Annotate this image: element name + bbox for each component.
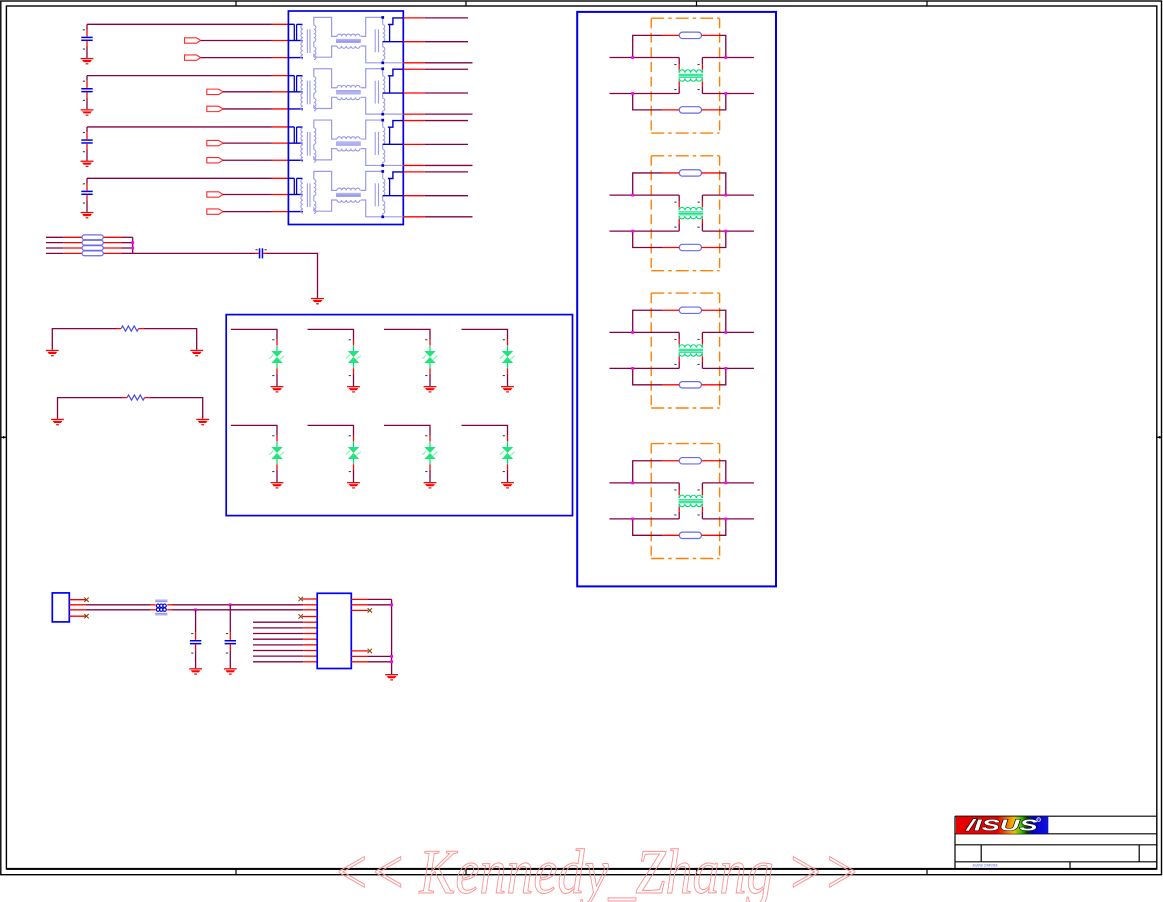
wire U1 mid left xyxy=(610,58,680,70)
wire R1 left xyxy=(52,329,121,350)
resistor R1A (top pill) xyxy=(679,32,701,38)
wire TVS D6 to ground xyxy=(353,464,355,482)
choke L4 xyxy=(674,489,703,515)
no-connect X J2 pin4 xyxy=(84,614,88,618)
wire T1 channel 1 outputs xyxy=(403,18,472,63)
wire TVS D5 to ground xyxy=(276,464,278,482)
shield group U4 dashed outline xyxy=(651,444,719,559)
port J4A xyxy=(207,192,223,197)
wire TVS D2 to ground xyxy=(353,368,355,386)
port J2A xyxy=(207,89,223,94)
ground xyxy=(224,668,237,675)
TVS diode D8 xyxy=(500,435,515,472)
wire port J3B to T1 xyxy=(223,159,288,161)
wire port J4B to T1 xyxy=(223,211,288,213)
TVS diode D1 xyxy=(269,339,284,376)
wire loop U3 bottom right xyxy=(702,368,726,384)
capacitor C3 xyxy=(81,127,92,161)
title block small text xyxy=(973,862,998,867)
choke L1 xyxy=(674,64,703,90)
U2 right NC pins xyxy=(351,610,368,651)
ground xyxy=(271,386,284,393)
wire R2 left xyxy=(58,398,128,419)
border zone ticks top xyxy=(236,1,927,6)
wire port J4A to T1 xyxy=(223,193,288,195)
no-connect X U2 pin1 xyxy=(299,597,303,601)
TVS diode array box xyxy=(226,315,572,516)
wire U1 mid right xyxy=(702,58,754,70)
port J3A xyxy=(207,140,223,145)
TVS diode D4 xyxy=(500,339,515,376)
wire loop U3 top left xyxy=(633,310,680,332)
TVS diode D7 xyxy=(422,435,437,472)
TVS diode D2 xyxy=(346,339,361,376)
resistor R1B (bottom pill) xyxy=(679,107,701,113)
ASUS logo xyxy=(956,817,1048,835)
capacitor C4 xyxy=(81,178,92,212)
TVS diode D5 xyxy=(269,435,284,472)
wire U2 mid left xyxy=(610,195,680,207)
wire U3 low left xyxy=(610,356,680,368)
transformer T1 channel 1 windings xyxy=(288,16,403,64)
port J3B xyxy=(207,158,223,163)
wire TVS D8 to ground xyxy=(507,464,509,482)
choke L2 xyxy=(674,202,703,228)
node junction C11 tap xyxy=(229,603,232,606)
wire loop U4 top left xyxy=(633,461,680,483)
wire to TVS D5 xyxy=(231,425,277,441)
wire to TVS D1 xyxy=(231,329,277,345)
no-connect X J2 pin1 xyxy=(84,598,88,602)
ground xyxy=(46,350,59,357)
ground xyxy=(424,386,437,393)
svg-text:R: R xyxy=(1037,818,1040,822)
wire loop U4 bottom right xyxy=(702,519,726,535)
wire loop U2 bottom left xyxy=(633,231,680,247)
wire port J1A to T1 xyxy=(201,40,289,42)
transformer T1 channel 3 windings xyxy=(288,119,403,167)
port J1A xyxy=(185,38,201,43)
ground xyxy=(190,350,203,357)
ground xyxy=(501,482,514,489)
ground xyxy=(81,109,94,115)
title block grid xyxy=(955,816,1157,869)
wire cap C1 to transformer T1 xyxy=(87,23,288,25)
ground xyxy=(271,482,284,489)
choke L3 xyxy=(674,339,703,365)
resistor pack RN1 wires left xyxy=(46,237,133,253)
transformer T1 channel 4 windings xyxy=(288,170,403,218)
svg-text:ASUSTeK COMPUTER: ASUSTeK COMPUTER xyxy=(973,862,998,867)
node junctions U1 xyxy=(631,56,727,95)
resistor R3B (bottom pill) xyxy=(679,382,701,388)
no-connect X U2 right b xyxy=(368,649,372,653)
wire U1 low right xyxy=(702,81,754,93)
wire U4 low left xyxy=(610,507,680,519)
wire U4 mid left xyxy=(610,483,680,495)
wire port J2A to T1 xyxy=(223,91,288,93)
ground xyxy=(385,674,398,681)
shield group U1 dashed outline xyxy=(651,18,719,133)
U2 left NC pins xyxy=(302,599,317,617)
wire loop U3 top right xyxy=(702,310,726,332)
capacitor C9 (horizontal) xyxy=(256,248,268,258)
ground xyxy=(196,419,209,426)
wire TVS D7 to ground xyxy=(429,464,431,482)
ground xyxy=(51,419,64,426)
resistor pack RN1 body xyxy=(82,235,103,256)
wire T1 channel 4 outputs xyxy=(403,172,472,217)
ground xyxy=(81,58,94,65)
wire J2 to FB1 xyxy=(86,605,156,610)
wire U2 mid right xyxy=(702,195,754,207)
LAN connector module box xyxy=(577,12,776,587)
wire to TVS D8 xyxy=(462,425,508,441)
wire U3 low right xyxy=(702,356,754,368)
wire loop U4 bottom left xyxy=(633,519,680,535)
wire port J1B to T1 xyxy=(201,57,289,59)
transformer module T1 box xyxy=(288,11,403,225)
TVS diode D3 xyxy=(422,339,437,376)
resistor R2 xyxy=(127,395,144,400)
node junctions U3 xyxy=(631,331,727,370)
TVS diode D6 xyxy=(346,435,361,472)
wire loop U1 top left xyxy=(633,35,680,57)
wire loop U1 top right xyxy=(702,35,726,57)
wire cap C2 to transformer T1 xyxy=(87,75,288,77)
capacitor C1 xyxy=(81,24,92,58)
node junctions U2 right xyxy=(390,603,393,663)
wire U2 low right xyxy=(702,219,754,231)
node junctions U2 xyxy=(631,194,727,233)
wire U1 low left xyxy=(610,81,680,93)
wire bundle to U2 xyxy=(253,622,317,662)
wire R2 right xyxy=(145,398,203,419)
port J4B xyxy=(207,209,223,214)
border zone ticks bottom xyxy=(236,869,927,875)
wire C9 to ground xyxy=(268,253,318,298)
border zone tick left xyxy=(1,436,7,439)
wire U3 mid left xyxy=(610,332,680,344)
wire R1 right xyxy=(139,329,197,350)
node junction C10 tap xyxy=(194,608,197,611)
watermark Kennedy_Zhang xyxy=(333,837,860,902)
wire cap C4 to transformer T1 xyxy=(87,177,288,179)
port J1B xyxy=(185,55,201,60)
resistor R3A (top pill) xyxy=(679,307,701,313)
connector J2 xyxy=(52,593,69,622)
IC U2 xyxy=(317,593,351,668)
wire U3 mid right xyxy=(702,332,754,344)
wire U2 low left xyxy=(610,219,680,231)
wire port J3A to T1 xyxy=(223,142,288,144)
svg-text:<< Kennedy_Zhang >>: << Kennedy_Zhang >> xyxy=(333,837,860,902)
ground xyxy=(81,212,94,219)
ground xyxy=(189,668,202,675)
wire loop U3 bottom left xyxy=(633,368,680,384)
resistor R4B (bottom pill) xyxy=(679,532,701,538)
wire loop U1 bottom right xyxy=(702,94,726,110)
ground xyxy=(311,298,324,305)
wire T1 channel 3 outputs xyxy=(403,121,472,166)
resistor R2B (bottom pill) xyxy=(679,244,701,250)
wire loop U2 bottom right xyxy=(702,231,726,247)
wire FB1 to U2 xyxy=(167,605,317,610)
ground xyxy=(347,482,360,489)
no-connect X U2 right a xyxy=(368,608,372,612)
wire loop U1 bottom left xyxy=(633,94,680,110)
common mode choke FB1 xyxy=(155,600,167,615)
wire to TVS D2 xyxy=(308,329,354,345)
wire loop U2 top left xyxy=(633,173,680,195)
wire to TVS D4 xyxy=(462,329,508,345)
capacitor C10 xyxy=(190,610,201,668)
port J2B xyxy=(207,106,223,111)
shield group U3 dashed outline xyxy=(651,293,719,408)
capacitor C2 xyxy=(81,76,92,110)
resistor R1 xyxy=(121,326,138,331)
no-connect X U2 pin4 xyxy=(299,614,303,618)
resistor R2A (top pill) xyxy=(679,170,701,176)
resistor R4A (top pill) xyxy=(679,458,701,464)
wire cap C3 to transformer T1 xyxy=(87,126,288,128)
ground xyxy=(424,482,437,489)
wire loop U4 top right xyxy=(702,461,726,483)
wire loop U2 top right xyxy=(702,173,726,195)
wire RN1 to C9 xyxy=(133,252,259,254)
wire port J2B to T1 xyxy=(223,108,288,110)
ground xyxy=(347,386,360,393)
ground xyxy=(81,161,94,168)
border zone tick right xyxy=(1157,436,1162,439)
wire to TVS D3 xyxy=(384,329,430,345)
shield group U2 dashed outline xyxy=(651,156,719,271)
node junctions U4 xyxy=(631,482,727,521)
wire to TVS D6 xyxy=(308,425,354,441)
wire TVS D3 to ground xyxy=(429,368,431,386)
connector J2 pins xyxy=(69,600,86,617)
wire to TVS D7 xyxy=(384,425,430,441)
transformer T1 channel 2 windings xyxy=(288,67,403,115)
node junction RN1 xyxy=(131,237,134,253)
wire U4 low right xyxy=(702,507,754,519)
U2 right pins to ground net xyxy=(351,599,391,674)
wire T1 channel 2 outputs xyxy=(403,69,472,114)
svg-text:/ISUS: /ISUS xyxy=(965,818,1038,835)
wire U4 mid right xyxy=(702,483,754,495)
wire TVS D1 to ground xyxy=(276,368,278,386)
ground xyxy=(501,386,514,393)
capacitor C11 xyxy=(225,605,236,668)
wire TVS D4 to ground xyxy=(507,368,509,386)
